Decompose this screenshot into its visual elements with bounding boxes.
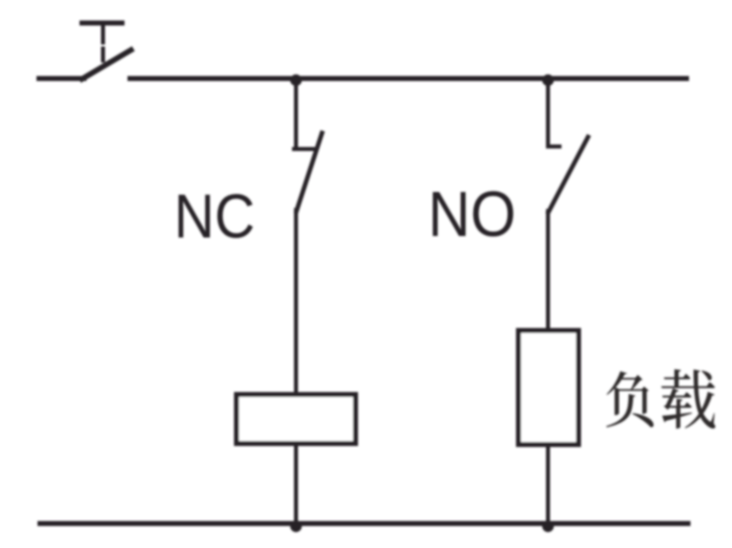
label 负 (load char 1) [606, 371, 653, 427]
node junction dot bottom-right branch [542, 521, 554, 533]
contact NO fixed tick [548, 145, 560, 149]
switch S1 actuator stem (dash-dot linkage) [101, 25, 105, 61]
wire top main [130, 76, 687, 81]
load resistor box [519, 331, 579, 445]
node junction dot top-left branch [290, 74, 302, 86]
switch S1 blade (manual operated) [82, 50, 131, 79]
coil KM (relay coil) [237, 395, 356, 444]
svg-text:NC: NC [174, 183, 255, 252]
wire NC to coil [294, 210, 298, 392]
wire load to bottom [546, 447, 550, 524]
contact NC blade [297, 133, 323, 211]
label 载 (load char 2) [661, 369, 715, 428]
wire NO branch upper [546, 79, 550, 147]
wire NO to load [546, 211, 550, 328]
svg-text:NO: NO [428, 178, 516, 250]
wire NC branch upper [294, 79, 298, 150]
wire bottom [40, 521, 688, 526]
node junction dot top-right branch [542, 74, 554, 86]
wire top-left segment [39, 76, 84, 81]
wire coil to bottom [294, 446, 298, 523]
contact NO blade [549, 137, 589, 212]
contact NC fixed bar [294, 147, 315, 151]
node junction dot bottom-left branch [290, 521, 302, 533]
switch S1 T-actuator bar [82, 21, 122, 26]
